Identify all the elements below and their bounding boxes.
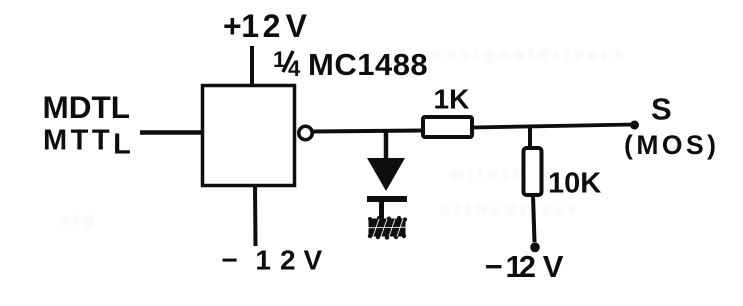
wire bubble to resistor 1K [313, 131, 422, 132]
op-amp U1 gate body (MC1488 driver) [203, 86, 295, 186]
wire 1K to output terminal [472, 125, 634, 128]
label (MOS) [624, 130, 720, 160]
junction wire down to 10K [528, 126, 532, 148]
resistor R2 10K (vertical box) [524, 148, 542, 195]
node wire down to diode [384, 131, 389, 159]
label MTTL [43, 125, 134, 161]
svg-text:10K: 10K [548, 168, 601, 200]
node S terminal dot [630, 121, 639, 130]
resistor R1 1K (horizontal box) [423, 117, 472, 137]
svg-text:S: S [651, 92, 672, 127]
inverter output bubble [299, 126, 313, 140]
label MDTL [43, 89, 130, 125]
label S [651, 92, 672, 127]
svg-text:n o s i g n a l d r i v e: n o s i g n a l d r i v e r s [430, 45, 623, 64]
input wire [140, 130, 202, 135]
label 1/4 MC1488 [273, 47, 428, 82]
label -12V (left, below gate) [222, 245, 323, 276]
svg-text:MDTL: MDTL [43, 89, 130, 125]
svg-text:4: 4 [288, 56, 301, 81]
svg-text:−12V: −12V [485, 249, 564, 284]
arrowhead at -12V [530, 242, 540, 252]
svg-text:MC1488: MC1488 [308, 47, 428, 82]
label 10K [548, 168, 601, 200]
diode D1 (anode top, cathode bottom) [367, 158, 407, 219]
ground (hatched chassis ground) [368, 216, 407, 240]
wire 10K to -12V arrow [533, 195, 535, 242]
svg-text:s i g: s i g [60, 210, 94, 229]
wire from +12V to gate top [250, 46, 254, 86]
svg-text:MTTL: MTTL [43, 125, 134, 161]
wire gate bottom to -12V [253, 185, 258, 246]
label 1K [434, 84, 470, 115]
svg-text:(MOS): (MOS) [624, 130, 720, 160]
label -12V (right, below 10K) [485, 249, 564, 284]
svg-text:o f t h e d r i v e r: o f t h e d r i v e r [440, 200, 576, 219]
svg-text:1K: 1K [434, 84, 470, 115]
svg-text:+12V: +12V [223, 8, 308, 44]
label +12V supply [223, 8, 308, 44]
